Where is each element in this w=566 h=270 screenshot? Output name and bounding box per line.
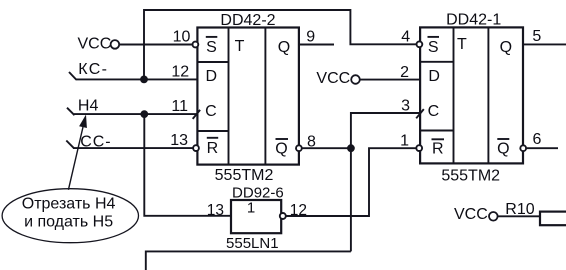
svg-text:13: 13: [170, 132, 188, 149]
svg-text:VCC: VCC: [78, 36, 112, 53]
pin label inverted Q of DD42-2: [275, 139, 288, 157]
svg-text:T: T: [235, 38, 245, 55]
inversion bubble output DD92-6: [280, 213, 286, 219]
svg-text:DD42-1: DD42-1: [446, 12, 501, 29]
svg-text:1: 1: [247, 200, 255, 217]
svg-text:S: S: [428, 39, 439, 56]
svg-text:12: 12: [171, 63, 189, 80]
inversion bubble Q-bar output DD42-1: [520, 145, 526, 151]
svg-text:3: 3: [401, 97, 410, 114]
pin label R of DD42-1: [432, 139, 445, 157]
svg-text:КС-: КС-: [78, 61, 108, 78]
svg-text:8: 8: [307, 133, 316, 150]
resistor R10 body: [540, 212, 566, 226]
svg-text:2: 2: [400, 64, 409, 81]
svg-text:D: D: [206, 68, 218, 85]
svg-text:СС-: СС-: [80, 134, 111, 151]
wire net KC- riser to top and over to pin4: [144, 10, 416, 79]
wire pin3 riser down to bottom bus: [351, 113, 420, 251]
svg-text:C: C: [205, 103, 217, 120]
inversion bubble R input DD42-1: [416, 145, 422, 151]
svg-text:Н4: Н4: [78, 97, 99, 114]
terminal VCC middle: [351, 75, 360, 84]
svg-text:R10: R10: [505, 201, 534, 218]
inversion bubble R input DD42-2: [193, 145, 199, 151]
wire CC- to pin13: [73, 147, 193, 149]
callout ellipse: [2, 189, 138, 243]
svg-text:555LN1: 555LN1: [226, 235, 279, 252]
inversion bubble S input DD42-1: [417, 41, 423, 47]
svg-text:Q: Q: [275, 140, 287, 157]
wire inverter output to pin1: [286, 148, 416, 216]
wire net H4 riser to inverter input: [144, 114, 231, 216]
svg-text:5: 5: [532, 28, 541, 45]
flip-flop DD42-1 body: [420, 27, 523, 163]
inverter DD92-6 body: [231, 200, 281, 233]
callout arrowhead: [79, 115, 87, 129]
svg-text:Q: Q: [278, 39, 290, 56]
svg-text:S: S: [206, 39, 217, 56]
junction node H4/riser: [140, 110, 148, 118]
wire VCC to R10: [498, 215, 540, 217]
pin label R of DD42-2: [207, 138, 219, 157]
svg-text:R: R: [432, 140, 444, 157]
dynamic input slash C DD42-2: [193, 110, 200, 119]
tick CC- lead: [66, 141, 74, 149]
svg-text:11: 11: [171, 98, 188, 115]
wire pin9 stub: [299, 44, 334, 46]
svg-text:R: R: [207, 140, 219, 157]
terminal VCC left: [111, 40, 120, 49]
wire VCC to pin10: [119, 44, 192, 46]
wire pin6 output: [527, 147, 558, 149]
svg-text:555TM2: 555TM2: [215, 167, 274, 184]
inversion bubble S input DD42-2: [193, 42, 199, 48]
callout arrow line: [68, 127, 83, 190]
svg-text:DD42-2: DD42-2: [220, 12, 275, 29]
svg-text:555TM2: 555TM2: [441, 167, 500, 184]
tick KC- lead: [69, 72, 77, 80]
dynamic input slash C DD42-1: [416, 109, 424, 118]
svg-text:Q: Q: [500, 39, 512, 56]
svg-text:и подать Н5: и подать Н5: [24, 214, 113, 231]
pin label inverted Q of DD42-1: [497, 139, 509, 157]
wire pin5 output: [523, 43, 566, 45]
svg-text:Отрезать Н4: Отрезать Н4: [22, 195, 116, 212]
svg-text:10: 10: [173, 29, 191, 46]
pin label S of DD42-1: [428, 37, 440, 56]
svg-text:T: T: [457, 36, 467, 53]
svg-text:12: 12: [290, 202, 307, 219]
svg-text:Q: Q: [497, 140, 509, 157]
tick H4 lead: [67, 108, 75, 116]
svg-text:13: 13: [207, 202, 224, 219]
svg-text:4: 4: [401, 29, 410, 46]
wire KC- to pin12: [76, 78, 197, 80]
pin label S of DD42-2: [206, 37, 218, 56]
wire bottom bus: [146, 251, 351, 270]
svg-text:6: 6: [533, 131, 542, 148]
junction node KC-/riser: [140, 76, 148, 84]
svg-text:DD92-6: DD92-6: [232, 184, 284, 201]
svg-text:1: 1: [400, 132, 409, 149]
wire H4 to pin11: [74, 113, 197, 115]
svg-text:VCC: VCC: [454, 206, 488, 223]
svg-text:D: D: [428, 68, 440, 85]
flip-flop DD42-2 body: [197, 28, 299, 165]
svg-text:VCC: VCC: [316, 70, 350, 87]
wire pin8 to junction: [302, 147, 351, 149]
svg-text:C: C: [428, 103, 440, 120]
wire VCC to pin2: [360, 79, 420, 81]
terminal VCC bottom: [489, 212, 498, 221]
svg-text:9: 9: [306, 28, 315, 45]
inversion bubble Q-bar output DD42-2: [296, 145, 302, 151]
junction node pin8/pin3 riser: [347, 144, 355, 152]
